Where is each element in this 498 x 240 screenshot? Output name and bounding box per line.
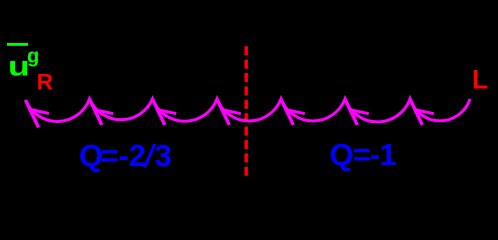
svg-text:L: L [472,65,488,95]
arrowhead at cusp 1 [90,99,114,125]
wire: magenta scalloped photon line [26,99,471,122]
arrowhead at cusp 5 [345,99,369,125]
label Q=-2/3 [79,138,172,173]
arrowhead at cusp 6 [410,99,434,125]
svg-text:=: = [101,138,119,173]
svg-text:-: - [119,138,129,173]
arrowhead at cusp 4 [281,99,305,125]
svg-text:g: g [27,46,39,68]
arrowhead at cusp 3 [217,99,241,125]
svg-text:3: 3 [155,138,172,173]
svg-text:Q: Q [79,138,103,173]
svg-text:Q=-1: Q=-1 [330,137,397,172]
arrowhead at cusp 2 [153,99,177,125]
red dashed vertical line [244,46,247,176]
arrowhead at left end [26,100,50,128]
overbar of u [7,43,28,46]
svg-text:2: 2 [129,138,146,173]
svg-text:R: R [37,69,53,94]
